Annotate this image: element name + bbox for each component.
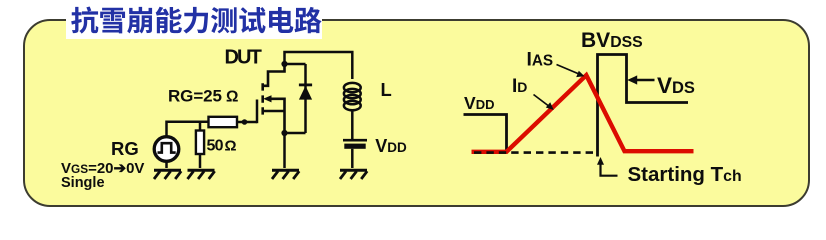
- waveform labels: [464, 29, 742, 186]
- svg-text:VDD: VDD: [464, 93, 494, 113]
- wire: drain lead of Q1: [264, 64, 285, 86]
- wire: 50ohm resistor stub: [199, 122, 202, 131]
- labels left circuit: [61, 47, 407, 192]
- capacitor VDD bottom plate: [344, 144, 365, 149]
- inductor L: [344, 83, 361, 110]
- wire: body arrow shaft and source stub: [264, 99, 285, 133]
- svg-text:RG=25: RG=25: [168, 87, 222, 106]
- resistor RG=25 ohm: [209, 117, 238, 127]
- svg-text:BVDSS: BVDSS: [581, 29, 643, 52]
- svg-text:L: L: [381, 79, 392, 100]
- node: drain junction dot: [281, 61, 287, 67]
- svg-text:VDS: VDS: [657, 73, 695, 98]
- waveform: red current trace ID/IAS: [472, 75, 694, 152]
- svg-text:ID: ID: [512, 76, 527, 97]
- waveform: dashed zero baseline: [474, 151, 598, 154]
- Tch pointer arrow and elbow: [601, 161, 618, 176]
- svg-text:VDD: VDD: [375, 136, 407, 156]
- svg-text:Single: Single: [61, 175, 105, 191]
- panel background: [23, 19, 810, 207]
- svg-text:50: 50: [207, 138, 224, 155]
- gate bar of Q1: [256, 100, 259, 124]
- wire: source of Q1 to ground: [283, 133, 286, 168]
- capacitor VDD top plate: [343, 139, 367, 142]
- svg-text:IAS: IAS: [527, 50, 554, 71]
- diode D1 cathode bar: [299, 84, 312, 87]
- ground under DUT source: [272, 170, 299, 179]
- VDS arrow: [634, 79, 655, 81]
- wire: resistor to gate: [237, 121, 258, 124]
- waveform: BVDSS pulse and VDS level (black): [598, 55, 689, 157]
- resistor 50 ohm: [196, 131, 204, 155]
- svg-text:DUT: DUT: [225, 47, 262, 69]
- wire: 50ohm to ground: [199, 154, 202, 168]
- title 抗雪崩能力测试电路: [71, 7, 321, 34]
- wire: drain top rail to inductor: [285, 52, 353, 79]
- svg-text:Starting Tch: Starting Tch: [628, 163, 742, 186]
- node: gate wire dot: [242, 119, 248, 125]
- wire: gate rail from pulse source to resistor RG: [167, 122, 209, 137]
- ground under 50ohm: [188, 170, 215, 179]
- wire: capacitor to ground: [351, 149, 354, 168]
- transistor Q1 (DUT mosfet) channel bars: [263, 64, 285, 133]
- ground under pulse generator: [154, 170, 181, 179]
- svg-text:Ω: Ω: [225, 138, 237, 155]
- svg-text:Ω: Ω: [226, 89, 238, 106]
- body arrow head of Q1: [263, 95, 271, 102]
- wire: inductor to capacitor: [351, 109, 354, 139]
- leader arrow to IAS: [557, 65, 580, 75]
- waveform: VDD step (black): [464, 115, 507, 153]
- node: source junction dot: [281, 130, 287, 136]
- title backdrop: [66, 2, 322, 39]
- ground under capacitor: [340, 170, 367, 179]
- svg-text:RG: RG: [111, 138, 139, 159]
- pulse generator RG: [154, 137, 179, 168]
- diode D1 triangle: [299, 86, 312, 100]
- leader arrow to ID: [534, 95, 551, 108]
- diode D1 (body diode) wires: [285, 64, 313, 133]
